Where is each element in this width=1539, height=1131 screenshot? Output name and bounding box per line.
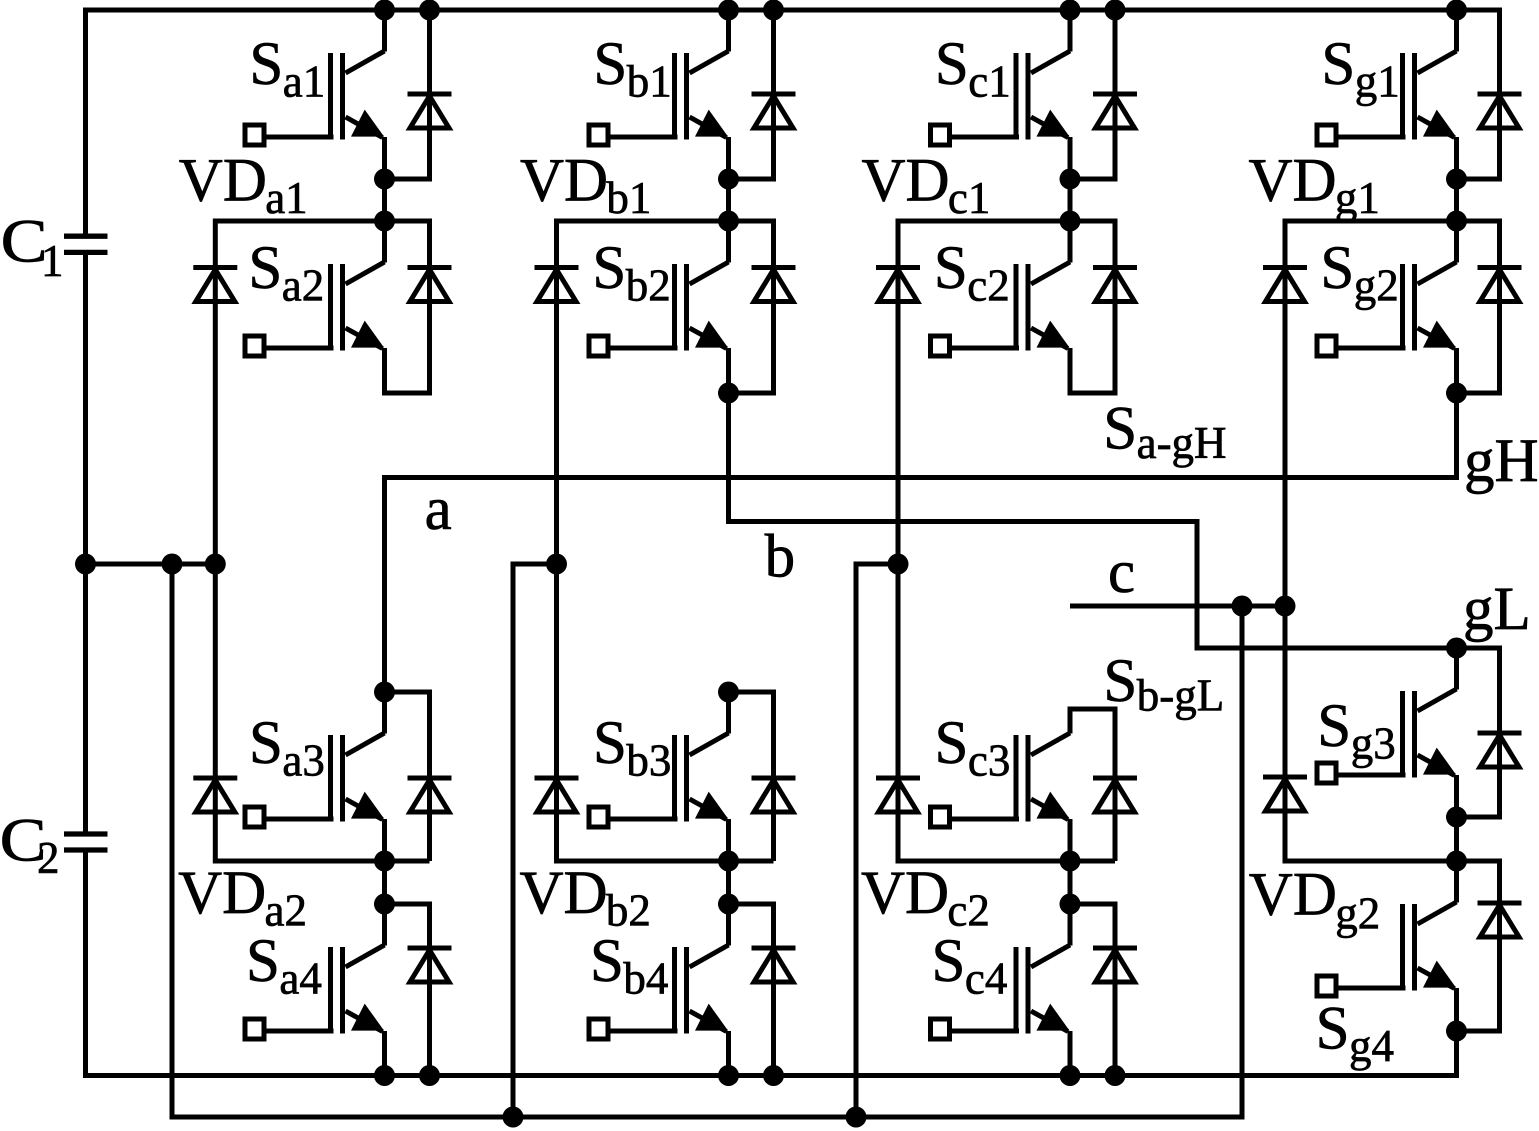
transistor S_b1 (IGBT) xyxy=(589,51,729,179)
svg-text:gH: gH xyxy=(1464,428,1539,495)
svg-text:a4: a4 xyxy=(279,953,321,1003)
svg-text:b2: b2 xyxy=(606,885,651,935)
wire node link leg c lower xyxy=(1068,857,1073,904)
svg-text:2: 2 xyxy=(37,833,60,883)
svg-text:S: S xyxy=(593,710,627,777)
svg-text:VD: VD xyxy=(520,860,608,927)
svg-text:g2: g2 xyxy=(1354,260,1399,310)
junction neutral at VD_a column xyxy=(205,554,226,575)
svg-text:S: S xyxy=(1320,235,1354,302)
junction leg g node4 xyxy=(1446,851,1467,872)
freewheel diode across S_b2 xyxy=(752,268,796,302)
svg-text:b1: b1 xyxy=(627,56,672,106)
wire leg b S_b2 diode column, clamp horizontals and VD_b1/VD_b2 column xyxy=(557,221,774,861)
svg-text:b2: b2 xyxy=(626,260,671,310)
wire S_c2 collector riser xyxy=(1068,221,1073,263)
wire S_g4 emitter link xyxy=(1454,1024,1459,1031)
svg-text:S: S xyxy=(249,710,283,777)
svg-text:g3: g3 xyxy=(1351,718,1396,768)
junction neutral at C1-C2 midpoint xyxy=(75,554,96,575)
wire S_g1 collector riser xyxy=(1454,10,1459,52)
svg-text:a1: a1 xyxy=(283,56,325,106)
svg-text:VD: VD xyxy=(520,148,608,215)
junction leg b lower nodeA xyxy=(718,851,739,872)
wire leg a S_a2 diode column, clamp horizontals and VD_a1/VD_a2 column xyxy=(215,221,429,861)
transistor S_b4 (IGBT) xyxy=(589,945,729,1073)
clamp diode VD_b2 xyxy=(535,778,579,812)
junction leg b lower nodeB xyxy=(718,894,739,915)
clamp diode VD_b1 xyxy=(535,268,579,302)
junction S_g4 emitter node xyxy=(1446,1021,1467,1042)
svg-text:S: S xyxy=(593,31,627,98)
svg-text:a1: a1 xyxy=(265,173,307,223)
svg-text:VD: VD xyxy=(862,148,950,215)
transistor S_c1 (IGBT) xyxy=(931,51,1071,179)
transistor S_g3 (IGBT) xyxy=(1317,689,1457,817)
svg-text:S: S xyxy=(935,31,969,98)
svg-text:c2: c2 xyxy=(947,885,989,935)
svg-text:a3: a3 xyxy=(282,735,324,785)
wire node link leg g upper xyxy=(1454,175,1459,221)
svg-text:b4: b4 xyxy=(623,953,668,1003)
wire node link leg c upper xyxy=(1068,175,1073,221)
svg-text:b: b xyxy=(765,524,796,591)
wire S_c4 collector riser xyxy=(1068,904,1073,946)
junction leg b top rail main xyxy=(718,0,739,21)
transistor S_c3 (IGBT) xyxy=(931,733,1071,861)
transistor S_c2 (IGBT) xyxy=(931,262,1071,390)
junction leg c top rail diode xyxy=(1105,0,1126,21)
junction leg a bottom rail main xyxy=(374,1065,395,1086)
svg-text:S: S xyxy=(246,928,280,995)
svg-text:g1: g1 xyxy=(1355,56,1400,106)
wire S_a3 collector riser xyxy=(382,692,387,734)
wire node link leg a lower xyxy=(382,857,387,904)
svg-text:c3: c3 xyxy=(968,735,1010,785)
svg-text:b3: b3 xyxy=(626,735,671,785)
junction leg b upper output xyxy=(718,383,739,404)
svg-text:S: S xyxy=(248,235,282,302)
transistor S_g4 (IGBT) xyxy=(1317,902,1457,1030)
junction leg b node2 xyxy=(718,211,739,232)
freewheel diode across S_g2 xyxy=(1478,268,1522,302)
svg-text:1: 1 xyxy=(41,236,64,286)
wire S_b4 collector riser xyxy=(726,904,731,946)
wire S_g3 collector riser xyxy=(1454,648,1459,690)
freewheel diode across S_c4 xyxy=(1093,948,1137,982)
junction leg a top rail main xyxy=(374,0,395,21)
svg-text:VD: VD xyxy=(179,148,267,215)
junction leg g node1 xyxy=(1446,169,1467,190)
wire neutral branch for leg c clamp xyxy=(856,564,898,1117)
junction leg a node1 xyxy=(374,169,395,190)
freewheel diode across S_c1 xyxy=(1093,94,1137,128)
wire S_c3 collector riser xyxy=(1068,709,1073,734)
wire leg b node stub + S_b4 freewheel diode column xyxy=(729,904,774,1076)
wire leg c S_c2 diode column, clamp horizontals and VD_c1/VD_c2 column xyxy=(898,221,1115,861)
svg-text:VD: VD xyxy=(1249,148,1337,215)
transistor S_c4 (IGBT) xyxy=(931,945,1071,1073)
svg-text:VD: VD xyxy=(178,860,266,927)
clamp diode VD_g1 xyxy=(1263,268,1307,302)
freewheel diode across S_g1 xyxy=(1478,94,1522,128)
wire node link leg g lower xyxy=(1454,813,1459,861)
freewheel diode across S_c3 xyxy=(1093,778,1137,812)
junction leg c bottom rail diode xyxy=(1105,1065,1126,1086)
transistor S_g2 (IGBT) xyxy=(1317,262,1457,390)
wire node link leg b lower xyxy=(726,857,731,904)
svg-text:g4: g4 xyxy=(1349,1021,1394,1071)
junction neutral return leg c xyxy=(846,1107,867,1128)
svg-text:S: S xyxy=(932,928,966,995)
wire S_c4 emitter to bottom rail xyxy=(1068,1068,1073,1076)
junction leg c top rail main xyxy=(1060,0,1081,21)
wire S_c1 freewheel diode column xyxy=(1070,10,1115,179)
svg-text:S: S xyxy=(1316,996,1350,1063)
svg-text:c4: c4 xyxy=(965,953,1007,1003)
svg-text:a2: a2 xyxy=(265,885,307,935)
svg-text:S: S xyxy=(249,31,283,98)
junction c line VD_g column xyxy=(1275,596,1296,617)
wire S_c3 collector bridge + freewheel diode column xyxy=(1070,709,1115,861)
junction neutral at VD_b column xyxy=(546,554,567,575)
junction leg b bottom rail main xyxy=(718,1065,739,1086)
junction leg g node3 xyxy=(1446,807,1467,828)
svg-text:S: S xyxy=(934,235,968,302)
svg-text:gL: gL xyxy=(1463,576,1531,643)
clamp diode VD_c2 xyxy=(876,778,920,812)
junction leg a bottom rail diode xyxy=(419,1065,440,1086)
wire S_b3 collector riser xyxy=(726,692,731,734)
wire leg b lower top stub + S_b3 freewheel diode column xyxy=(729,692,774,861)
wire leg a node stub + S_a4 freewheel diode column xyxy=(385,904,430,1076)
wire S_b1 collector riser xyxy=(726,10,731,52)
wire phase-b to gL link (S_b-gL) incl. S_g3 diode column xyxy=(729,393,1500,817)
clamp diode VD_a1 xyxy=(193,268,237,302)
wire S_g2 collector riser xyxy=(1454,221,1459,263)
junction leg b bottom rail diode xyxy=(763,1065,784,1086)
junction leg c node1 xyxy=(1060,169,1081,190)
svg-text:a: a xyxy=(425,476,452,543)
clamp diode VD_a2 xyxy=(193,778,237,812)
wire S_a1 freewheel diode column xyxy=(385,10,430,179)
wire S_a1 collector riser xyxy=(382,10,387,52)
svg-text:S: S xyxy=(935,710,969,777)
svg-text:b-gL: b-gL xyxy=(1137,671,1224,721)
wire node link leg a upper xyxy=(382,175,387,221)
junction leg a lower nodeA xyxy=(374,851,395,872)
svg-text:VD: VD xyxy=(1249,862,1337,929)
transistor S_g1 (IGBT) xyxy=(1317,51,1457,179)
freewheel diode across S_g4 xyxy=(1478,903,1522,937)
svg-text:a2: a2 xyxy=(282,260,324,310)
svg-text:S: S xyxy=(1317,693,1351,760)
freewheel diode across S_a2 xyxy=(408,268,452,302)
wire neutral branch for leg b clamp xyxy=(513,564,557,1117)
transistor S_b3 (IGBT) xyxy=(589,733,729,861)
wire left bus between C1 and C2 xyxy=(83,252,88,834)
junction leg g node2 xyxy=(1446,211,1467,232)
freewheel diode across S_a4 xyxy=(408,948,452,982)
wire S_g4 collector riser xyxy=(1454,861,1459,903)
wire phase-c line xyxy=(1070,604,1285,609)
junction neutral return leg b xyxy=(503,1107,524,1128)
svg-text:g2: g2 xyxy=(1335,889,1380,939)
freewheel diode across S_b3 xyxy=(752,778,796,812)
wire S_a4 collector riser xyxy=(382,904,387,946)
junction leg c lower nodeB xyxy=(1060,894,1081,915)
svg-text:c1: c1 xyxy=(968,56,1010,106)
junction leg a lower top xyxy=(374,682,395,703)
freewheel diode across S_g3 xyxy=(1478,733,1522,767)
junction leg c lower nodeA xyxy=(1060,851,1081,872)
svg-text:a-gH: a-gH xyxy=(1137,418,1227,468)
freewheel diode across S_b1 xyxy=(752,94,796,128)
wire S_b1 freewheel diode column xyxy=(729,10,774,179)
svg-text:VD: VD xyxy=(861,860,949,927)
junction leg g top rail xyxy=(1446,0,1467,21)
wire leg g S_g2 diode column, clamp horizontals, VD_g1/VD_g2 column and S_g4 diode column xyxy=(1285,221,1500,1031)
wire left bus lower + bottom DC- rail + right riser to S_g4 emitter node xyxy=(86,850,1457,1076)
wire top DC+ rail and left bus upper segment + S_g1 diode column xyxy=(86,10,1500,236)
svg-text:g1: g1 xyxy=(1335,173,1380,223)
junction leg a node2 xyxy=(374,211,395,232)
junction neutral x=172 xyxy=(162,554,183,575)
transistor S_a4 (IGBT) xyxy=(245,945,385,1073)
freewheel diode across S_a1 xyxy=(408,94,452,128)
wire leg a lower top stub + S_a3 freewheel diode column xyxy=(385,692,430,861)
freewheel diode across S_a3 xyxy=(408,778,452,812)
wire S_a2 collector riser xyxy=(382,221,387,263)
freewheel diode across S_b4 xyxy=(752,948,796,982)
capacitor C1 xyxy=(64,236,108,252)
wire node link leg b upper xyxy=(726,175,731,221)
svg-text:b1: b1 xyxy=(606,173,651,223)
junction leg b lower top xyxy=(718,682,739,703)
junction leg a top rail diode xyxy=(419,0,440,21)
svg-text:c2: c2 xyxy=(967,260,1009,310)
junction c line neutral riser xyxy=(1232,596,1253,617)
wire S_a4 emitter to bottom rail xyxy=(382,1068,387,1076)
svg-text:S: S xyxy=(1321,31,1355,98)
wire neutral drop x=172 + bottom neutral return + riser to c line xyxy=(172,564,1242,1117)
wire S_b4 emitter to bottom rail xyxy=(726,1068,731,1076)
svg-text:S: S xyxy=(592,235,626,302)
junction leg a lower nodeB xyxy=(374,894,395,915)
transistor S_b2 (IGBT) xyxy=(589,262,729,390)
junction leg c node2 xyxy=(1060,211,1081,232)
svg-text:S: S xyxy=(1103,396,1137,463)
junction gL node xyxy=(1446,638,1467,659)
junction gH node xyxy=(1446,383,1467,404)
svg-text:c1: c1 xyxy=(948,173,990,223)
wire S_c1 collector riser xyxy=(1068,10,1073,52)
junction leg c bottom rail main xyxy=(1060,1065,1081,1086)
svg-text:c: c xyxy=(1108,539,1135,606)
junction leg b top rail diode xyxy=(763,0,784,21)
clamp diode VD_g2 xyxy=(1263,777,1307,811)
svg-text:S: S xyxy=(1103,648,1137,715)
wire S_b2 collector riser xyxy=(726,221,731,263)
wire neutral horizontal from C1-C2 midpoint xyxy=(86,562,216,567)
svg-text:S: S xyxy=(590,928,624,995)
capacitor C2 xyxy=(64,834,108,850)
transistor S_a2 (IGBT) xyxy=(245,262,385,390)
clamp diode VD_c1 xyxy=(876,268,920,302)
junction leg b node1 xyxy=(718,169,739,190)
transistor S_a3 (IGBT) xyxy=(245,733,385,861)
wire leg c node stub + S_c4 freewheel diode column xyxy=(1070,904,1115,1076)
freewheel diode across S_c2 xyxy=(1093,268,1137,302)
transistor S_a1 (IGBT) xyxy=(245,51,385,179)
wire phase-a to gH link (S_a-gH) xyxy=(385,393,1457,692)
junction neutral at VD_c column xyxy=(888,554,909,575)
